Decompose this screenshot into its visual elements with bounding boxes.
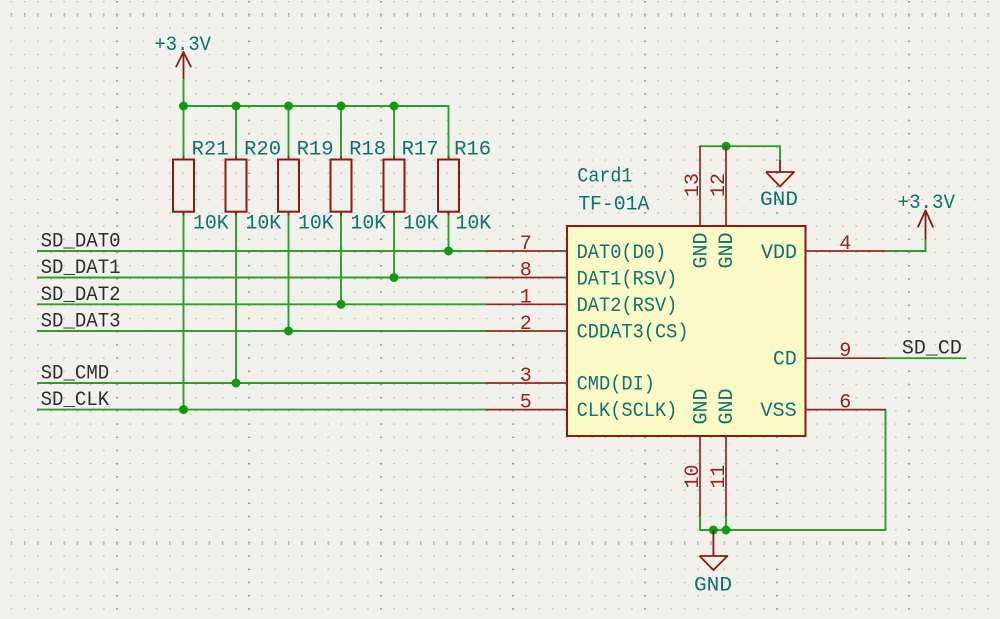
svg-text:SD_CD: SD_CD [902, 338, 962, 361]
svg-text:SD_CMD: SD_CMD [41, 363, 110, 386]
svg-text:8: 8 [520, 260, 532, 283]
svg-text:VDD: VDD [761, 242, 797, 265]
svg-text:+3.3V: +3.3V [898, 192, 955, 215]
svg-text:SD_DAT2: SD_DAT2 [41, 284, 121, 307]
svg-text:4: 4 [839, 233, 851, 256]
svg-text:10K: 10K [246, 213, 282, 236]
svg-text:R16: R16 [454, 139, 491, 162]
svg-text:R21: R21 [192, 139, 229, 162]
svg-text:11: 11 [708, 464, 731, 488]
svg-text:GND: GND [716, 233, 739, 269]
svg-text:DAT0(D0): DAT0(D0) [577, 242, 667, 265]
svg-text:3: 3 [520, 365, 532, 388]
svg-text:10K: 10K [456, 213, 492, 236]
svg-text:GND: GND [716, 389, 739, 425]
svg-text:10K: 10K [298, 213, 334, 236]
svg-text:CLK(SCLK): CLK(SCLK) [577, 400, 678, 423]
svg-text:TF-01A: TF-01A [578, 193, 649, 216]
svg-text:R18: R18 [349, 139, 386, 162]
svg-text:7: 7 [520, 233, 532, 256]
svg-text:10: 10 [682, 464, 705, 488]
svg-text:12: 12 [708, 173, 731, 197]
svg-text:SD_DAT0: SD_DAT0 [41, 231, 121, 254]
svg-text:DAT2(RSV): DAT2(RSV) [577, 295, 678, 318]
svg-text:SD_DAT3: SD_DAT3 [41, 311, 121, 334]
svg-text:10K: 10K [403, 213, 439, 236]
svg-text:13: 13 [682, 173, 705, 197]
svg-text:1: 1 [520, 286, 532, 309]
svg-text:+3.3V: +3.3V [154, 34, 211, 57]
svg-text:SD_DAT1: SD_DAT1 [41, 257, 121, 280]
svg-text:10K: 10K [193, 213, 229, 236]
svg-text:CD: CD [773, 349, 797, 372]
svg-text:DAT1(RSV): DAT1(RSV) [577, 269, 678, 292]
svg-text:VSS: VSS [760, 400, 796, 423]
svg-text:Card1: Card1 [577, 165, 632, 188]
svg-text:5: 5 [520, 392, 532, 415]
svg-text:GND: GND [760, 189, 798, 212]
svg-text:CDDAT3(CS): CDDAT3(CS) [577, 322, 689, 345]
svg-text:6: 6 [839, 392, 851, 415]
svg-text:2: 2 [520, 313, 532, 336]
svg-text:10K: 10K [351, 213, 387, 236]
svg-text:GND: GND [691, 389, 714, 425]
svg-text:R17: R17 [402, 139, 439, 162]
svg-text:R19: R19 [297, 139, 334, 162]
svg-text:GND: GND [694, 575, 732, 598]
svg-text:R20: R20 [244, 139, 281, 162]
svg-text:SD_CLK: SD_CLK [41, 389, 110, 412]
svg-text:9: 9 [839, 340, 851, 363]
svg-text:CMD(DI): CMD(DI) [577, 374, 655, 397]
svg-text:GND: GND [691, 233, 714, 269]
